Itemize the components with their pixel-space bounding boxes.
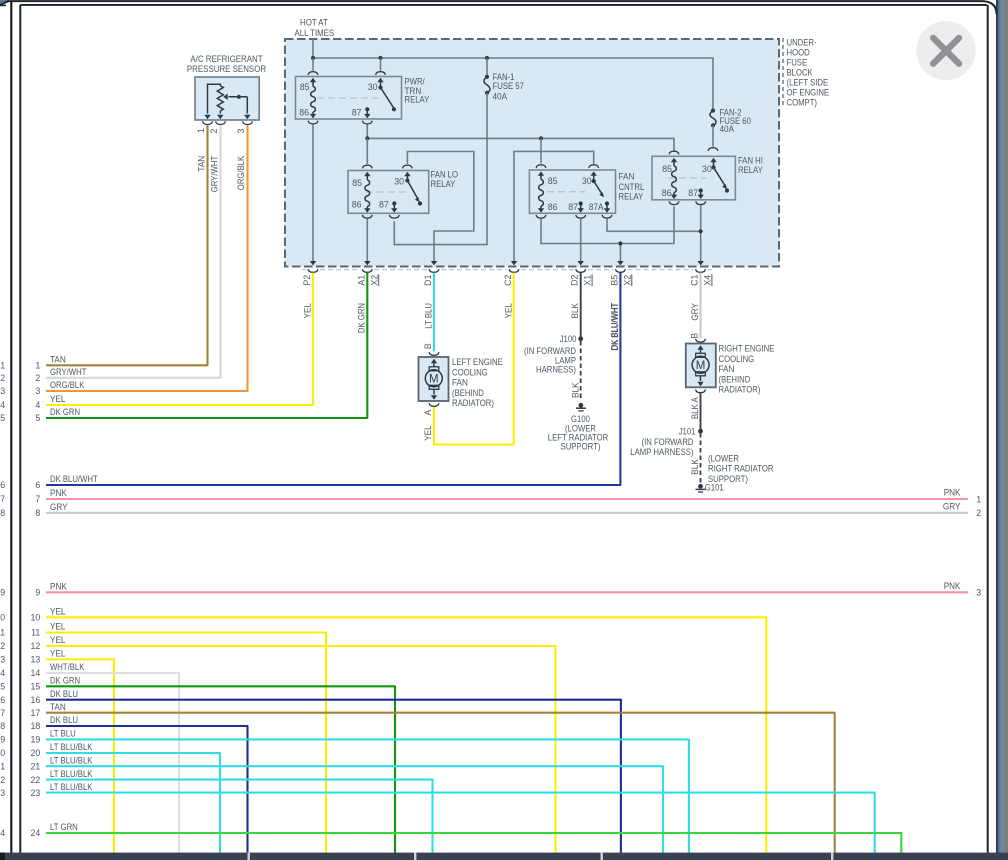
svg-text:1: 1 — [0, 361, 5, 371]
svg-text:DK GRN: DK GRN — [50, 676, 80, 686]
sensor pin 2 — [209, 121, 225, 133]
svg-text:11: 11 — [31, 628, 40, 638]
svg-text:18: 18 — [0, 721, 5, 731]
svg-text:C1: C1 — [690, 274, 700, 285]
FAN CNTRL pin 87 terminal — [576, 201, 586, 218]
svg-text:2: 2 — [0, 373, 5, 383]
FAN CNTRL switch contact — [592, 179, 604, 197]
svg-text:17: 17 — [0, 708, 5, 718]
svg-text:(BEHIND: (BEHIND — [719, 374, 751, 384]
label PWR/TRN RELAY — [405, 77, 430, 105]
svg-text:J100: J100 — [560, 334, 577, 344]
FAN HI pin labels — [662, 164, 712, 198]
svg-text:3: 3 — [236, 128, 246, 133]
svg-text:12: 12 — [31, 641, 41, 651]
FAN CNTRL pin 87A terminal — [602, 201, 612, 218]
wire row 8 GRY — [0, 502, 968, 518]
label RIGHT ENGINE COOLING FAN — [719, 344, 775, 395]
wire to FAN CNTRL pin 85 — [536, 138, 546, 179]
svg-text:(IN FORWARD: (IN FORWARD — [642, 437, 694, 447]
svg-text:DK GRN: DK GRN — [357, 303, 367, 333]
wire row 3 ORG/BLK — [0, 125, 247, 396]
wire row 14 WHT/BLK — [0, 662, 179, 852]
PWR/TRN pin 85 terminal — [308, 58, 318, 87]
svg-text:RELAY: RELAY — [405, 95, 430, 105]
FAN CNTRL pin labels — [548, 176, 604, 212]
svg-text:10: 10 — [0, 613, 5, 623]
wire row 10 YEL — [0, 607, 766, 853]
svg-text:GRY: GRY — [943, 501, 961, 511]
svg-text:P2: P2 — [302, 275, 312, 286]
svg-text:7: 7 — [35, 494, 40, 504]
svg-text:1: 1 — [196, 128, 206, 133]
svg-text:DK GRN: DK GRN — [50, 407, 80, 417]
svg-text:86: 86 — [548, 202, 558, 212]
svg-text:YEL: YEL — [50, 607, 66, 617]
svg-text:11: 11 — [0, 628, 5, 638]
wire row 1 TAN — [0, 125, 207, 370]
sensor A/C REFRIGERANT PRESSURE SENSOR box — [187, 54, 267, 120]
svg-text:YEL: YEL — [50, 649, 66, 659]
wire FAN HI 87 to C1 — [698, 205, 704, 265]
svg-text:40A: 40A — [493, 92, 508, 102]
svg-text:B: B — [689, 333, 699, 339]
svg-text:PNK: PNK — [50, 582, 67, 592]
ground G101 — [696, 482, 724, 492]
svg-text:7: 7 — [0, 494, 5, 504]
svg-text:X1: X1 — [583, 275, 593, 286]
svg-text:COMPT): COMPT) — [787, 98, 818, 108]
right background band — [996, 0, 1008, 860]
svg-text:LT BLU: LT BLU — [50, 729, 76, 739]
svg-text:RADIATOR): RADIATOR) — [719, 385, 761, 395]
wire row 16 DK BLU — [0, 689, 621, 853]
relay U2 FAN LO RELAY box — [348, 171, 429, 214]
svg-text:13: 13 — [31, 655, 41, 665]
svg-text:DK BLU: DK BLU — [50, 689, 78, 699]
svg-text:ALL TIMES: ALL TIMES — [295, 28, 335, 38]
fuse FAN-1 FUSE 57 40A — [484, 58, 524, 102]
svg-text:5: 5 — [35, 413, 40, 423]
svg-text:PNK: PNK — [944, 488, 961, 498]
svg-text:ORG/BLK: ORG/BLK — [50, 380, 85, 390]
right side label PNK 3 — [944, 581, 982, 597]
svg-text:FUSE: FUSE — [787, 58, 808, 68]
PWR/TRN switch contact — [378, 85, 396, 111]
svg-text:BLK: BLK — [690, 459, 700, 475]
svg-text:2: 2 — [35, 373, 40, 383]
FAN CNTRL pin 30 terminal — [589, 165, 599, 181]
node FAN HI 87 and 87A junction — [699, 229, 703, 233]
relay U4 FAN HI RELAY box — [652, 156, 735, 200]
wire GRY from C1 to right fan — [699, 273, 701, 339]
wire BLK right fan to J101 — [700, 393, 702, 431]
svg-text:LT BLU/BLK: LT BLU/BLK — [50, 769, 93, 779]
FAN LO relay coil — [365, 180, 370, 207]
motor M1 LEFT ENGINE COOLING FAN — [419, 352, 449, 406]
FAN HI relay coil — [672, 166, 677, 193]
svg-text:3: 3 — [976, 587, 981, 597]
svg-text:OF ENGINE: OF ENGINE — [787, 88, 830, 98]
PWR/TRN relay coil — [311, 87, 316, 113]
connector pin D2 — [570, 269, 593, 286]
FAN CNTRL pin 86 terminal — [536, 206, 546, 218]
svg-text:4: 4 — [35, 400, 40, 410]
svg-text:TAN: TAN — [196, 156, 206, 172]
svg-text:21: 21 — [0, 761, 5, 771]
svg-text:(LOWER: (LOWER — [708, 453, 739, 463]
svg-text:20: 20 — [0, 748, 5, 758]
svg-text:19: 19 — [0, 735, 5, 745]
wire row 6 DK BLU/WHT — [0, 273, 620, 491]
svg-text:X2: X2 — [622, 275, 632, 286]
PWR/TRN pin 87 terminal — [362, 107, 372, 124]
sensor pin 3 — [236, 121, 253, 133]
wire PWR/TRN 86 to P2 — [310, 124, 316, 265]
FAN HI pin 87 terminal — [696, 188, 706, 204]
label HOT AT ALL TIMES — [295, 17, 335, 38]
label LOWER RIGHT RADIATOR SUPPORT — [708, 453, 774, 484]
connector row dashed line — [302, 269, 712, 271]
label FAN HI RELAY — [738, 156, 763, 175]
FAN LO pin 86 terminal — [362, 207, 372, 219]
FAN CNTRL relay coil — [539, 180, 544, 207]
wire top power bus — [313, 58, 713, 111]
svg-text:5: 5 — [0, 413, 5, 423]
svg-text:3: 3 — [35, 386, 40, 396]
svg-text:15: 15 — [0, 682, 5, 692]
svg-text:BLK: BLK — [570, 303, 580, 319]
svg-text:85: 85 — [548, 176, 558, 186]
svg-text:A/C REFRIGERANT: A/C REFRIGERANT — [190, 54, 263, 64]
wire PWR/TRN 87 distribution bus — [367, 124, 674, 150]
svg-text:YEL: YEL — [503, 303, 513, 319]
svg-text:DK BLU: DK BLU — [50, 715, 78, 725]
wire row 17 TAN — [0, 702, 835, 853]
wire FAN LO 30 loop to D1 — [407, 152, 473, 266]
svg-text:FAN: FAN — [719, 364, 735, 374]
svg-text:85: 85 — [300, 82, 310, 92]
wire row 23 LT BLU/BLK — [0, 782, 875, 853]
PWR/TRN pin 30 terminal — [376, 58, 386, 88]
svg-text:(LEFT SIDE: (LEFT SIDE — [787, 78, 829, 88]
FAN HI pin 30 terminal — [710, 158, 716, 168]
wire row 11 YEL — [0, 622, 326, 853]
FAN LO pin 30 terminal — [403, 165, 413, 180]
FAN LO pin labels — [352, 177, 404, 210]
node 87 bus at FAN LO — [365, 136, 369, 140]
svg-text:9: 9 — [0, 588, 5, 598]
fuse FAN-2 FUSE 60 40A — [710, 107, 751, 134]
svg-text:87: 87 — [379, 200, 389, 210]
svg-text:HOOD: HOOD — [787, 48, 810, 58]
svg-text:85: 85 — [662, 164, 672, 174]
svg-text:LT BLU/BLK: LT BLU/BLK — [50, 782, 93, 792]
wire FAN CNTRL 87 to D2 — [578, 219, 584, 266]
svg-text:TAN: TAN — [50, 355, 66, 365]
FAN LO switch contact — [405, 178, 422, 205]
svg-text:17: 17 — [31, 708, 41, 718]
svg-text:GRY/WHT: GRY/WHT — [209, 155, 219, 192]
svg-text:8: 8 — [0, 508, 5, 518]
svg-text:10: 10 — [31, 613, 41, 623]
wire row 20 LT BLU/BLK — [0, 742, 220, 852]
svg-text:FAN: FAN — [619, 172, 635, 182]
svg-text:87A: 87A — [589, 202, 604, 212]
svg-text:RIGHT ENGINE: RIGHT ENGINE — [719, 344, 775, 354]
wire row 21 LT BLU/BLK — [0, 755, 663, 852]
svg-text:GRY/WHT: GRY/WHT — [50, 367, 87, 377]
svg-text:22: 22 — [31, 775, 41, 785]
wire YEL left fan to C2 — [434, 273, 514, 445]
svg-text:FAN: FAN — [452, 378, 468, 388]
svg-text:SUPPORT): SUPPORT) — [561, 442, 601, 452]
svg-text:UNDER-: UNDER- — [787, 38, 817, 48]
connector pin C1 — [690, 269, 713, 286]
PWR/TRN pin labels — [299, 82, 377, 118]
svg-text:X2: X2 — [369, 275, 379, 286]
wire row 4 YEL — [0, 273, 313, 411]
svg-text:B: B — [423, 343, 433, 349]
wire FAN LO 86 to A1 — [364, 219, 370, 266]
wire row 24 LT GRN — [0, 822, 901, 852]
svg-text:PNK: PNK — [50, 488, 67, 498]
wire row 19 LT BLU — [0, 729, 689, 853]
wire row 12 YEL — [0, 635, 555, 852]
svg-text:YEL: YEL — [423, 425, 433, 441]
wire row 18 DK BLU — [0, 715, 248, 852]
svg-text:21: 21 — [31, 761, 41, 771]
connector pin D1 — [423, 269, 439, 286]
node bus junction at FAN-1 fuse — [485, 56, 489, 60]
label UNDERHOOD FUSE BLOCK — [783, 38, 829, 108]
svg-text:85: 85 — [352, 178, 362, 188]
FAN LO pin 87 terminal — [389, 201, 399, 218]
svg-text:M: M — [429, 373, 439, 385]
FAN HI switch contact — [711, 165, 729, 192]
label G100 LOWER LEFT RADIATOR SUPPORT — [548, 414, 608, 452]
svg-text:22: 22 — [0, 775, 5, 785]
svg-text:30: 30 — [394, 177, 404, 187]
close button — [916, 21, 975, 80]
wire row 13 YEL — [0, 649, 114, 853]
relay U1 PWR/TRN RELAY box — [296, 77, 402, 120]
svg-text:3: 3 — [0, 386, 5, 396]
sensor wiper arm — [223, 94, 250, 120]
svg-text:X4: X4 — [703, 275, 713, 286]
svg-text:13: 13 — [0, 655, 5, 665]
wire row 9 PNK — [0, 582, 968, 598]
svg-text:9: 9 — [35, 588, 40, 598]
svg-text:YEL: YEL — [50, 394, 66, 404]
label FAN CNTRL RELAY — [619, 172, 645, 202]
wire BLK from D2 to J100 — [580, 273, 582, 339]
svg-text:ORG/BLK: ORG/BLK — [236, 156, 246, 191]
wire BLK J100 to G100 — [580, 341, 582, 401]
svg-text:14: 14 — [0, 668, 5, 678]
ground G100 — [576, 403, 586, 411]
wire row 15 DK GRN — [0, 676, 395, 853]
svg-text:LT BLU: LT BLU — [423, 303, 433, 329]
svg-text:2: 2 — [209, 128, 219, 133]
svg-text:M: M — [696, 360, 706, 372]
wire row 22 LT BLU/BLK — [0, 769, 432, 853]
svg-text:87: 87 — [352, 107, 362, 117]
svg-text:BLOCK: BLOCK — [787, 68, 813, 78]
svg-text:PNK: PNK — [944, 581, 961, 591]
svg-text:30: 30 — [582, 176, 592, 186]
wire BLK J101 to G101 — [700, 433, 702, 483]
svg-text:COOLING: COOLING — [719, 354, 755, 364]
wire C2 riser to FAN CNTRL 30 — [511, 151, 594, 265]
svg-text:C2: C2 — [503, 274, 513, 285]
wire row 7 PNK — [0, 488, 968, 504]
svg-text:RELAY: RELAY — [431, 179, 456, 189]
svg-text:6: 6 — [35, 480, 40, 490]
svg-text:HARNESS): HARNESS) — [536, 364, 576, 374]
connector pin B5 — [609, 269, 632, 286]
svg-text:86: 86 — [352, 200, 362, 210]
svg-text:24: 24 — [0, 828, 5, 838]
svg-text:30: 30 — [702, 164, 712, 174]
svg-text:PRESSURE SENSOR: PRESSURE SENSOR — [187, 64, 267, 74]
svg-text:RELAY: RELAY — [738, 165, 763, 175]
svg-text:A1: A1 — [356, 275, 366, 286]
svg-text:A: A — [423, 410, 433, 416]
svg-text:20: 20 — [31, 748, 41, 758]
svg-text:LEFT ENGINE: LEFT ENGINE — [452, 357, 503, 367]
svg-text:FUSE 57: FUSE 57 — [493, 81, 524, 91]
svg-text:LT BLU/BLK: LT BLU/BLK — [50, 742, 93, 752]
right side label PNK 1 — [944, 488, 982, 505]
svg-text:G101: G101 — [705, 482, 724, 492]
node bus junction at pin30 feed — [378, 56, 382, 60]
svg-text:19: 19 — [31, 735, 41, 745]
svg-text:LAMP HARNESS): LAMP HARNESS) — [630, 447, 693, 457]
FAN HI pin 86 terminal — [669, 193, 679, 205]
svg-text:6: 6 — [0, 480, 5, 490]
wire FAN-2 fuse to FAN HI 30 — [708, 125, 718, 150]
svg-text:1: 1 — [35, 361, 40, 371]
wire LT BLU from D1 to left fan — [433, 273, 435, 352]
label FAN LO RELAY — [431, 170, 459, 189]
svg-text:GRY: GRY — [50, 502, 68, 512]
wire FAN CNTRL 87A to FAN HI 87 node — [607, 219, 701, 232]
node bus junction at pin85 feed — [311, 56, 315, 60]
svg-text:D2: D2 — [570, 274, 580, 285]
svg-text:J101: J101 — [679, 426, 696, 436]
svg-text:(BEHIND: (BEHIND — [452, 388, 484, 398]
svg-text:DK BLU/WHT: DK BLU/WHT — [610, 302, 620, 350]
svg-text:RIGHT RADIATOR: RIGHT RADIATOR — [708, 464, 774, 474]
svg-text:LT GRN: LT GRN — [50, 822, 78, 832]
svg-text:G100: G100 — [571, 414, 590, 424]
relay U3 FAN CNTRL RELAY box — [529, 170, 615, 213]
underhood fuse block dashed box — [285, 39, 779, 267]
svg-text:YEL: YEL — [50, 622, 66, 632]
svg-text:86: 86 — [662, 188, 672, 198]
wire FAN-1 fuse to FAN LO 87 — [394, 93, 487, 245]
svg-text:HOT AT: HOT AT — [300, 17, 328, 27]
svg-text:B5: B5 — [609, 275, 619, 286]
wire 86 bus to B5 and FAN HI 86 — [541, 206, 674, 265]
svg-text:BLK: BLK — [570, 382, 580, 398]
svg-text:D1: D1 — [423, 274, 433, 285]
svg-text:15: 15 — [31, 682, 41, 692]
svg-text:8: 8 — [35, 508, 40, 518]
svg-text:RELAY: RELAY — [619, 192, 644, 202]
svg-text:WHT/BLK: WHT/BLK — [50, 662, 85, 672]
svg-text:YEL: YEL — [50, 635, 66, 645]
node 87 bus at FAN CNTRL — [539, 136, 543, 140]
svg-text:40A: 40A — [720, 124, 735, 134]
svg-text:2: 2 — [976, 508, 981, 518]
splice J101 — [630, 426, 703, 457]
wire row 5 DK GRN — [0, 273, 367, 424]
svg-text:16: 16 — [0, 695, 5, 705]
connector pin P2 — [302, 269, 318, 285]
svg-text:YEL: YEL — [302, 303, 312, 319]
connector pin A1 — [356, 269, 379, 286]
svg-text:14: 14 — [31, 668, 41, 678]
PWR/TRN pin 86 terminal — [308, 112, 318, 124]
svg-text:TAN: TAN — [50, 702, 66, 712]
svg-text:87: 87 — [688, 188, 698, 198]
svg-text:4: 4 — [0, 400, 5, 410]
svg-text:1: 1 — [976, 494, 981, 504]
node 86 bus junction — [618, 241, 622, 245]
svg-text:24: 24 — [31, 828, 41, 838]
svg-text:18: 18 — [31, 721, 41, 731]
connector pin C2 — [503, 269, 519, 286]
svg-text:16: 16 — [31, 695, 41, 705]
sensor potentiometer resistor — [204, 84, 223, 119]
wire to FAN LO pin 85 — [362, 138, 372, 180]
svg-text:86: 86 — [299, 107, 309, 117]
svg-text:DK BLU/WHT: DK BLU/WHT — [50, 474, 98, 484]
motor M2 RIGHT ENGINE COOLING FAN — [686, 339, 716, 393]
wire row 2 GRY/WHT — [0, 125, 220, 383]
label LEFT ENGINE COOLING FAN — [452, 357, 503, 408]
svg-text:12: 12 — [0, 641, 5, 651]
svg-text:RADIATOR): RADIATOR) — [452, 398, 494, 408]
sensor pin 1 — [196, 121, 213, 133]
svg-text:23: 23 — [31, 788, 41, 798]
svg-text:BLK A: BLK A — [690, 397, 700, 419]
svg-text:GRY: GRY — [690, 303, 700, 321]
svg-text:30: 30 — [368, 82, 378, 92]
splice J100 — [524, 334, 583, 375]
wire hot feed into fuse block — [312, 39, 314, 59]
right side label GRY 2 — [943, 501, 981, 518]
bottom toolbar — [0, 853, 1008, 860]
svg-text:87: 87 — [568, 202, 578, 212]
svg-text:LT BLU/BLK: LT BLU/BLK — [50, 755, 93, 765]
wire to FAN HI pin 85 — [669, 150, 679, 166]
svg-text:COOLING: COOLING — [452, 367, 488, 377]
svg-text:23: 23 — [0, 788, 5, 798]
